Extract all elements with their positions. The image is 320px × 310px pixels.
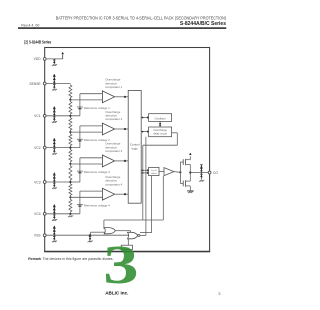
svg-text:Overcharge: Overcharge <box>105 175 120 179</box>
label comparator 3 <box>105 142 122 153</box>
svg-text:Reference voltage 3: Reference voltage 3 <box>84 170 110 174</box>
wire VC4 rail <box>46 213 80 215</box>
wire comparator 4 output <box>115 193 129 195</box>
reference voltage source V1 <box>77 107 83 109</box>
parasitic diode D5 below VC1 <box>52 116 57 123</box>
node VC1 rail junction <box>69 115 71 117</box>
pin VC3 <box>34 180 46 184</box>
label comparator 1 <box>105 78 122 89</box>
svg-text:comparator 3: comparator 3 <box>105 149 122 153</box>
resistor R1 <box>69 84 72 98</box>
wire VC2 rail <box>46 147 80 149</box>
svg-text:VSS: VSS <box>34 234 41 238</box>
parasitic diode D13 below VSS <box>52 235 57 242</box>
label comparator 2 <box>105 110 122 121</box>
wire output to CO <box>190 172 208 174</box>
wire reference branch 3 <box>79 158 81 182</box>
pin VSS <box>34 234 46 238</box>
wire feedback h1 <box>143 144 178 146</box>
control logic block <box>128 90 141 203</box>
wire comparator 3 output <box>115 160 129 162</box>
svg-text:(2) S-8244B Series: (2) S-8244B Series <box>24 39 51 44</box>
wire VC1 rail <box>46 115 80 117</box>
svg-text:Level: Level <box>151 170 157 172</box>
node comparator 3 output <box>124 160 126 162</box>
wire feedback h3 <box>140 232 152 234</box>
wire feedback v4 <box>151 176 153 233</box>
wire oscillator to delay <box>159 121 161 127</box>
oscillator block <box>149 114 172 122</box>
svg-text:comparator 4: comparator 4 <box>105 182 122 186</box>
resistor R4 <box>69 133 72 146</box>
svg-text:Remark: Remark <box>28 257 41 261</box>
reference voltage source V4 <box>77 204 83 206</box>
wire feedback v3 <box>162 176 164 220</box>
op-amp comparator U2 <box>102 123 114 135</box>
wire tap to comparator 2 minus input <box>70 131 102 133</box>
parasitic diodes D15 above CO wire <box>200 165 203 173</box>
wire feedback h2 <box>104 219 163 221</box>
svg-text:detection: detection <box>105 179 117 183</box>
svg-text:ABLIC Inc.: ABLIC Inc. <box>105 291 128 296</box>
parasitic diodes D8 above VC3 <box>53 172 56 182</box>
node VC4-resistor junction <box>69 213 71 215</box>
node divider tap 2 <box>69 131 71 133</box>
op-amp comparator U1 <box>102 91 114 103</box>
parasitic diodes D4 above VC1 <box>53 106 56 116</box>
power arrow VDD at Q1 <box>189 153 192 155</box>
wire comparator 4 plus input <box>80 190 103 192</box>
wire G1 lower input <box>91 232 105 235</box>
svg-text:VDD: VDD <box>34 57 42 61</box>
node comparator 4 output <box>124 193 126 195</box>
pin VC4 <box>34 212 46 216</box>
wire control to level shifter A <box>141 169 149 171</box>
current source arrow at VDD <box>61 52 64 59</box>
svg-text:3: 3 <box>218 291 221 296</box>
wire control to oscillator <box>141 116 149 118</box>
pin VC1 <box>34 114 46 118</box>
wire VC3 rail <box>46 181 80 183</box>
svg-text:Reference voltage 4: Reference voltage 4 <box>84 203 110 207</box>
pin VC2 <box>34 146 46 150</box>
wire feedback v1 <box>176 133 178 145</box>
label control logic <box>130 143 140 151</box>
label comparator 4 <box>105 175 122 186</box>
svg-text:comparator 2: comparator 2 <box>105 117 122 121</box>
wire G2 to ICT box <box>127 239 129 245</box>
wire reference branch 4 <box>79 191 81 214</box>
svg-text:BATTERY PROTECTION IC FOR 3-SE: BATTERY PROTECTION IC FOR 3-SERIAL TO 4-… <box>56 15 227 20</box>
wire G1 output <box>115 231 130 234</box>
wire comparator 1 plus input <box>80 93 103 95</box>
ground at Q2 <box>187 191 194 193</box>
svg-text:detection: detection <box>105 145 117 149</box>
reference voltage source V2 <box>77 139 83 141</box>
parasitic diode D9 below VC3 <box>52 182 57 189</box>
op-amp comparator U3 <box>102 155 114 167</box>
svg-text:comparator 1: comparator 1 <box>105 85 122 89</box>
parasitic diode D3 below SENSE <box>52 84 57 91</box>
resistor R7 <box>69 183 72 196</box>
svg-text:detection: detection <box>105 81 117 85</box>
wire tap to comparator 4 minus input <box>70 196 102 198</box>
parasitic diodes D6 above VC2 <box>53 138 56 148</box>
parasitic diodes D2 above SENSE <box>53 74 56 84</box>
IC outline box <box>45 48 210 252</box>
svg-text:Overcharge: Overcharge <box>105 110 120 114</box>
node comparator 2 output <box>124 128 126 130</box>
wire control to level shifter B <box>141 172 149 174</box>
resistor R5 <box>69 149 72 163</box>
parasitic diode D16 below CO wire <box>199 173 204 182</box>
wire comparator 1 output <box>115 96 129 98</box>
wire G2 output <box>140 234 146 236</box>
wire reference branch 2 <box>79 126 81 148</box>
wire comparator 3 plus input <box>80 157 103 159</box>
svg-text:logic: logic <box>132 146 139 150</box>
node comparator 1 output <box>124 96 126 98</box>
wire feedback v5 <box>145 137 147 236</box>
node VC3 rail junction <box>69 181 71 183</box>
wire gate vertical <box>179 162 181 184</box>
node output <box>189 171 191 173</box>
wire tap to comparator 1 minus input <box>70 99 102 101</box>
parasitic diode D7 below VC2 <box>52 148 57 155</box>
wire VSS rail <box>46 234 135 236</box>
wire control to delay circuit <box>141 130 149 132</box>
wire VDD rail <box>46 58 63 60</box>
transistor Q2 (Nch) <box>180 173 190 191</box>
parasitic diodes D12 above VSS <box>53 226 56 236</box>
wire buffer to gate node <box>174 171 180 174</box>
resistor R8 <box>69 198 72 212</box>
overcharge delay circuit block <box>149 127 172 137</box>
header rule <box>18 27 226 29</box>
node divider tap 1 <box>69 99 71 101</box>
svg-text:VC3: VC3 <box>34 180 41 184</box>
svg-text:Overcharge: Overcharge <box>105 78 120 82</box>
resistor R6 <box>69 165 72 181</box>
label level shifter <box>151 170 157 175</box>
node divider tap 3 <box>69 163 71 165</box>
gate G1 <box>104 228 115 234</box>
level shifter block <box>149 167 159 175</box>
svg-text:SENSE: SENSE <box>29 82 41 86</box>
node VC2 rail junction <box>69 147 71 149</box>
parasitic diode D11 below VC4 <box>52 214 57 221</box>
wire feedback v2 <box>142 145 144 220</box>
svg-text:Rev.4.4_00: Rev.4.4_00 <box>21 23 39 27</box>
node divider tap 4 <box>69 196 71 198</box>
svg-text:S-8244A/B/C Series: S-8244A/B/C Series <box>180 21 226 27</box>
node gate <box>179 171 181 173</box>
gate G2 <box>128 232 138 239</box>
svg-text:detection: detection <box>105 114 117 118</box>
parasitic diode D1 below VDD <box>52 59 57 66</box>
buffer amplifier <box>164 168 174 176</box>
parasitic diodes D10 above VC4 <box>53 204 56 214</box>
parasitic diode D14 below VSS rail <box>88 235 93 242</box>
parasitic hatch below VC4 junction <box>68 216 73 218</box>
wire tap to comparator 3 minus input <box>70 163 102 165</box>
wire comparator 2 output <box>115 128 129 130</box>
svg-text:CO: CO <box>213 171 218 175</box>
wire delay out right <box>172 132 178 134</box>
wire feedback v6 <box>103 220 105 229</box>
svg-text:Control: Control <box>130 143 140 147</box>
resistor R3 <box>69 117 72 131</box>
ICT box <box>121 245 132 249</box>
pin CO <box>208 171 218 175</box>
svg-text:Overcharge: Overcharge <box>105 142 120 146</box>
wire reference branch 1 <box>79 94 81 116</box>
transistor Q1 (Pch) <box>180 156 190 172</box>
label delay circuit <box>153 128 167 136</box>
svg-text:VC1: VC1 <box>34 114 41 118</box>
resistor R2 <box>69 101 72 115</box>
reference voltage source V3 <box>77 171 83 173</box>
node VSS mid junction <box>89 234 91 236</box>
svg-text:Reference voltage 1: Reference voltage 1 <box>84 106 110 110</box>
wire level shifter to buffer <box>159 171 164 173</box>
wire comparator 2 plus input <box>80 125 103 127</box>
svg-text:3: 3 <box>103 234 138 295</box>
svg-text:VC2: VC2 <box>34 146 41 150</box>
pin VDD <box>34 57 46 61</box>
wire SENSE rail <box>46 83 70 85</box>
op-amp comparator U4 <box>102 188 114 200</box>
pin SENSE <box>29 82 46 86</box>
svg-text:VC4: VC4 <box>34 212 41 216</box>
bubble at G2 output <box>138 234 140 236</box>
